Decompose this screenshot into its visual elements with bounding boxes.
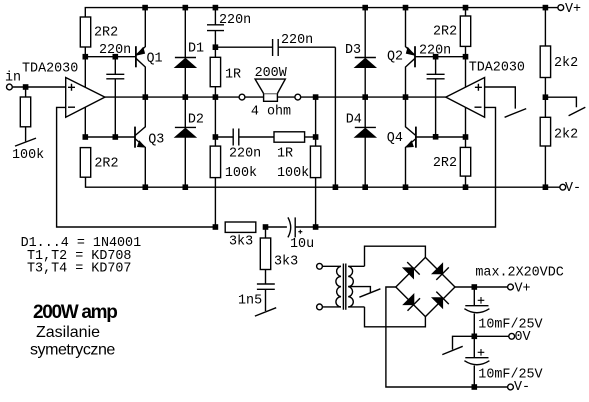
transistor Q2	[406, 8, 416, 98]
svg-text:2R2: 2R2	[94, 26, 118, 41]
svg-text:1R: 1R	[225, 68, 241, 83]
bridge diode top-left	[403, 262, 420, 278]
svg-text:2R2: 2R2	[94, 157, 118, 172]
svg-text:D4: D4	[346, 113, 362, 128]
ground slash U2 input	[505, 109, 527, 118]
ground slash 1n5	[255, 308, 276, 316]
svg-text:2R2: 2R2	[433, 25, 457, 40]
svg-text:1R: 1R	[277, 147, 293, 162]
svg-text:220n: 220n	[419, 44, 451, 59]
svg-text:Q1: Q1	[147, 52, 163, 67]
svg-text:0V: 0V	[515, 330, 531, 345]
svg-text:2R2: 2R2	[433, 156, 457, 171]
op-amp U1 TDA2030 left	[66, 78, 105, 118]
svg-text:3k3: 3k3	[274, 255, 298, 270]
capacitor 220n top rail branch	[207, 8, 224, 48]
svg-text:100k: 100k	[12, 148, 44, 163]
wire divider tap out	[545, 97, 576, 107]
svg-text:V-: V-	[514, 380, 530, 395]
capacitor 220n mid-top horizontal	[215, 39, 335, 56]
svg-text:200W: 200W	[255, 66, 288, 81]
svg-text:10mF/25V: 10mF/25V	[478, 318, 542, 333]
wire left zobel branch	[214, 97, 216, 146]
svg-text:1n5: 1n5	[238, 293, 262, 308]
svg-text:200W amp: 200W amp	[33, 302, 117, 323]
resistor R4 1R horizontal	[274, 132, 316, 142]
bridge diode top-right	[432, 263, 449, 280]
svg-text:4 ohm: 4 ohm	[251, 105, 291, 120]
resistor R5 100k left-mid	[210, 146, 220, 227]
wire bridge positive to V+	[455, 286, 508, 288]
transformer T primary terminals	[317, 263, 323, 309]
wire 220n to V- rail	[334, 47, 336, 187]
transformer T coils and core	[322, 264, 370, 310]
resistor R10 2k2 lower	[540, 97, 550, 187]
svg-text:220n: 220n	[99, 43, 131, 58]
wire right bias row	[415, 56, 466, 58]
svg-text:D2: D2	[188, 113, 204, 128]
resistor R11 3k3 horizontal	[225, 222, 256, 232]
svg-text:T3,T4 = KD707: T3,T4 = KD707	[27, 262, 131, 277]
speaker 200W 4ohm	[239, 79, 301, 101]
wire U1 supply pins	[84, 47, 86, 137]
capacitor C10mF lower	[464, 336, 489, 387]
svg-text:symetryczne: symetryczne	[30, 342, 115, 359]
capacitor 220n zobel left	[215, 129, 274, 146]
wire 0V node	[474, 335, 509, 337]
bridge diode bottom-left	[403, 294, 420, 311]
wire secondary to bridge top	[365, 246, 426, 266]
ground slash 0V	[442, 346, 462, 354]
wire U2 supply pins	[465, 57, 467, 137]
svg-text:2k2: 2k2	[554, 127, 578, 142]
resistor R6 100k right-mid	[310, 146, 320, 227]
svg-text:3k3: 3k3	[229, 235, 253, 250]
resistor 100k input	[20, 97, 30, 127]
wire left bias row	[85, 56, 136, 58]
bridge rectifier diamond	[396, 257, 455, 316]
resistor R2 2R2 bottom-left	[80, 148, 90, 178]
capacitor C10mF upper	[464, 287, 489, 336]
svg-text:Zasilanie: Zasilanie	[36, 324, 100, 341]
capacitor 220n left	[106, 57, 124, 137]
capacitor 10u electrolytic	[266, 217, 316, 237]
resistor R9 2k2 upper	[540, 8, 550, 98]
svg-text:Q4: Q4	[387, 131, 403, 146]
ground input slash	[15, 138, 36, 146]
terminal V+ psu	[508, 284, 514, 290]
diode D1	[175, 8, 196, 98]
wire output line	[105, 96, 446, 98]
svg-text:TDA2030: TDA2030	[469, 60, 525, 75]
svg-text:max.2X20VDC: max.2X20VDC	[475, 266, 563, 281]
subtitle Zasilanie	[36, 324, 100, 341]
transistor Q1	[136, 8, 145, 98]
resistor R8 2R2 bottom-right	[460, 137, 470, 187]
bridge diode bottom-right	[432, 292, 449, 309]
svg-text:in: in	[5, 71, 21, 86]
terminal V- mid	[560, 184, 566, 190]
title 200W amp	[33, 302, 117, 323]
resistor R12 3k3 vertical	[260, 227, 270, 284]
resistor R7 2R2 top-right	[460, 8, 470, 57]
transistor Q3	[135, 97, 145, 187]
svg-text:Q3: Q3	[148, 133, 164, 148]
resistor R1 2R2 top-left	[80, 17, 90, 47]
wire U2 non-inverting to ground	[485, 87, 516, 109]
terminal V- psu	[508, 384, 514, 390]
svg-text:Q2: Q2	[387, 50, 403, 65]
diode D3	[355, 8, 376, 98]
diode D4	[355, 97, 376, 187]
resistor R3 1R vertical	[210, 47, 220, 97]
terminal 0V	[509, 333, 515, 339]
terminal V+ top	[558, 5, 564, 11]
svg-text:V+: V+	[565, 2, 581, 17]
svg-text:100k: 100k	[277, 166, 309, 181]
wire secondary to bridge bottom	[365, 307, 426, 327]
svg-text:V-: V-	[565, 181, 581, 196]
wire right lower row	[416, 136, 466, 138]
svg-text:V+: V+	[515, 282, 531, 297]
svg-text:220n: 220n	[219, 13, 251, 28]
subtitle symetryczne	[30, 342, 115, 359]
diode D2	[175, 97, 196, 187]
wire 0V to ground slash	[453, 336, 475, 349]
transistor Q4	[406, 97, 416, 187]
svg-text:D3: D3	[345, 43, 361, 58]
ground slash divider	[569, 107, 586, 116]
wire bridge negative to V-	[386, 287, 508, 387]
svg-text:2k2: 2k2	[554, 56, 578, 71]
wire right zobel branch	[315, 97, 317, 146]
wire U1 inverting input to feedback	[57, 107, 216, 227]
svg-text:10mF/25V: 10mF/25V	[478, 367, 542, 382]
ground slash transformer center tap	[359, 289, 380, 297]
svg-text:10u: 10u	[290, 237, 314, 252]
op-amp U2 TDA2030 right	[446, 78, 485, 118]
svg-text:100k: 100k	[225, 166, 257, 181]
wire U2 inverting feedback	[316, 107, 496, 227]
wire left lower row	[85, 136, 135, 138]
wire V- rail	[86, 177, 560, 187]
svg-text:TDA2030: TDA2030	[22, 62, 78, 77]
svg-text:D1: D1	[188, 42, 204, 57]
svg-text:220n: 220n	[229, 147, 261, 162]
capacitor 220n right	[427, 57, 445, 137]
svg-text:220n: 220n	[281, 33, 313, 48]
capacitor 1n5	[257, 284, 275, 311]
node input	[12, 86, 65, 88]
wire input shunt branch	[25, 87, 27, 141]
terminal input	[6, 84, 12, 90]
wire V+ top rail	[85, 8, 558, 17]
